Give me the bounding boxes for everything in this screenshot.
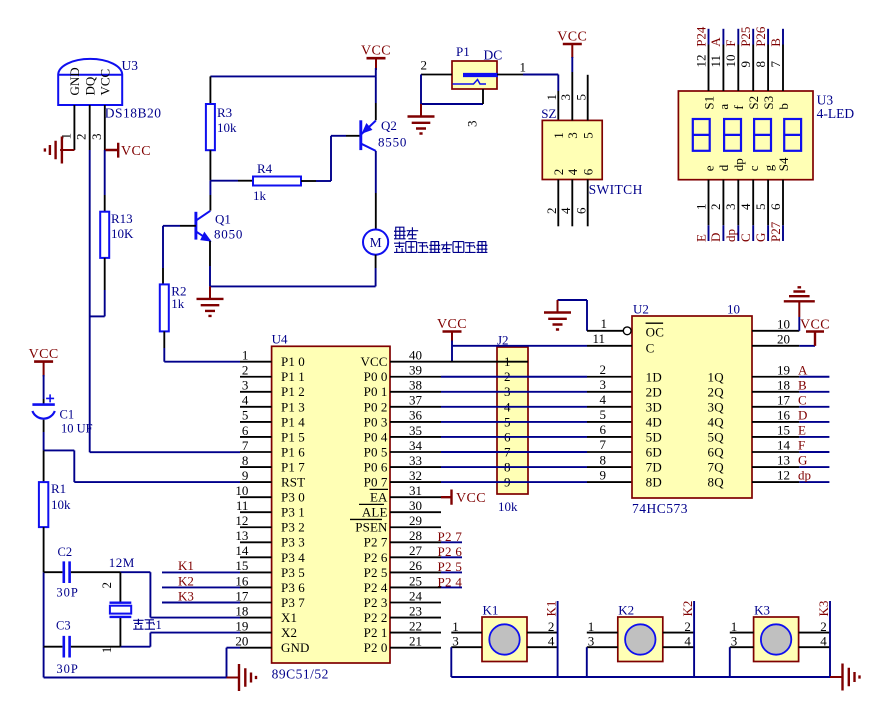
svg-text:g: g — [761, 164, 776, 171]
svg-text:Q1: Q1 — [215, 212, 231, 227]
svg-text:S4: S4 — [776, 157, 791, 171]
svg-text:P1 5: P1 5 — [281, 429, 305, 444]
svg-text:P0 7: P0 7 — [364, 475, 388, 490]
svg-text:8Q: 8Q — [708, 475, 725, 490]
svg-text:1Q: 1Q — [708, 369, 725, 384]
svg-text:S2: S2 — [746, 96, 761, 110]
svg-text:15: 15 — [235, 558, 248, 573]
svg-text:VCC: VCC — [437, 317, 467, 332]
svg-text:a: a — [716, 104, 731, 110]
svg-text:P0 4: P0 4 — [364, 429, 388, 444]
svg-text:29: 29 — [409, 513, 422, 528]
svg-text:74HC573: 74HC573 — [632, 501, 688, 516]
svg-text:34: 34 — [409, 438, 423, 453]
svg-text:VCC: VCC — [361, 44, 391, 59]
svg-text:DC: DC — [484, 48, 503, 63]
svg-text:K1: K1 — [178, 558, 194, 573]
svg-text:B: B — [768, 38, 783, 47]
svg-text:7D: 7D — [646, 460, 663, 475]
svg-text:3: 3 — [452, 634, 459, 649]
svg-text:2: 2 — [99, 582, 114, 589]
svg-text:P2 3: P2 3 — [364, 595, 388, 610]
svg-text:7Q: 7Q — [708, 460, 725, 475]
svg-text:13: 13 — [777, 453, 790, 468]
svg-text:24: 24 — [409, 588, 423, 603]
svg-text:4: 4 — [242, 393, 249, 408]
svg-text:S3: S3 — [761, 96, 776, 110]
svg-text:b: b — [776, 103, 791, 110]
svg-text:5Q: 5Q — [708, 430, 725, 445]
svg-text:DQ: DQ — [82, 76, 97, 95]
svg-text:P2 2: P2 2 — [364, 610, 388, 625]
svg-text:P3 2: P3 2 — [281, 520, 305, 535]
svg-text:SWITCH: SWITCH — [589, 182, 643, 197]
svg-text:7: 7 — [242, 438, 249, 453]
svg-text:15: 15 — [777, 422, 790, 437]
svg-text:1: 1 — [520, 60, 527, 75]
svg-text:P2 6: P2 6 — [364, 550, 388, 565]
svg-text:2: 2 — [544, 208, 559, 215]
svg-text:20: 20 — [235, 633, 248, 648]
svg-text:2: 2 — [421, 58, 428, 73]
svg-text:P3 3: P3 3 — [281, 535, 305, 550]
svg-text:9: 9 — [738, 61, 753, 68]
svg-text:4: 4 — [600, 392, 607, 407]
svg-text:2: 2 — [548, 619, 555, 634]
svg-text:3: 3 — [558, 94, 573, 101]
svg-text:P2 5: P2 5 — [438, 559, 463, 574]
svg-text:2: 2 — [820, 619, 827, 634]
svg-text:P2 7: P2 7 — [364, 535, 388, 550]
svg-text:7: 7 — [768, 61, 783, 68]
svg-text:X1: X1 — [281, 610, 297, 625]
svg-text:2: 2 — [600, 362, 607, 377]
svg-text:PSEN: PSEN — [355, 520, 388, 535]
svg-text:20: 20 — [777, 331, 790, 346]
svg-text:C2: C2 — [58, 545, 73, 559]
svg-text:5: 5 — [753, 204, 768, 211]
svg-text:3: 3 — [89, 134, 104, 141]
svg-text:16: 16 — [777, 407, 791, 422]
svg-text:P2 0: P2 0 — [364, 640, 388, 655]
svg-text:16: 16 — [235, 573, 249, 588]
svg-text:4: 4 — [565, 168, 580, 175]
svg-text:P0 0: P0 0 — [364, 369, 388, 384]
svg-text:2: 2 — [684, 619, 691, 634]
svg-text:2D: 2D — [646, 384, 663, 399]
svg-text:P1 7: P1 7 — [281, 459, 305, 474]
svg-text:R4: R4 — [257, 161, 273, 176]
svg-text:K3: K3 — [816, 601, 831, 617]
svg-text:A: A — [708, 37, 723, 47]
svg-text:3Q: 3Q — [708, 399, 725, 414]
svg-text:10: 10 — [235, 483, 248, 498]
svg-text:4: 4 — [558, 207, 573, 214]
svg-text:K1: K1 — [543, 601, 558, 617]
svg-text:C: C — [738, 233, 753, 242]
svg-text:30P: 30P — [56, 662, 78, 676]
svg-text:K3: K3 — [754, 603, 770, 618]
svg-text:32: 32 — [409, 468, 422, 483]
svg-text:P2 4: P2 4 — [364, 580, 388, 595]
svg-text:3: 3 — [565, 132, 580, 139]
svg-text:40: 40 — [409, 348, 422, 363]
svg-text:P1 2: P1 2 — [281, 384, 305, 399]
svg-text:1: 1 — [551, 132, 566, 139]
svg-text:11: 11 — [236, 498, 249, 513]
svg-text:VCC: VCC — [456, 491, 486, 506]
svg-text:5: 5 — [574, 94, 589, 101]
svg-text:P0 2: P0 2 — [364, 399, 388, 414]
svg-text:P0 1: P0 1 — [364, 384, 388, 399]
svg-text:c: c — [746, 165, 761, 171]
svg-text:2: 2 — [551, 169, 566, 176]
svg-text:P3 4: P3 4 — [281, 550, 305, 565]
svg-text:S1: S1 — [701, 96, 716, 110]
svg-text:GND: GND — [67, 67, 82, 95]
svg-text:e: e — [701, 165, 716, 171]
svg-text:8: 8 — [600, 452, 607, 467]
svg-text:10 UF: 10 UF — [61, 422, 93, 436]
svg-text:14: 14 — [777, 438, 791, 453]
svg-text:19: 19 — [235, 618, 248, 633]
svg-text:P3 6: P3 6 — [281, 580, 305, 595]
svg-text:ALE: ALE — [362, 505, 388, 520]
svg-text:1k: 1k — [171, 296, 185, 311]
svg-text:P1 4: P1 4 — [281, 414, 305, 429]
svg-text:89C51/52: 89C51/52 — [272, 667, 329, 682]
svg-text:18: 18 — [235, 603, 248, 618]
svg-text:G: G — [798, 453, 807, 468]
svg-text:4-LED: 4-LED — [817, 106, 855, 121]
svg-text:8: 8 — [753, 61, 768, 68]
svg-text:31: 31 — [409, 483, 422, 498]
svg-text:8050: 8050 — [214, 227, 243, 242]
svg-text:8: 8 — [242, 453, 249, 468]
svg-text:P2 1: P2 1 — [364, 625, 388, 640]
svg-text:11: 11 — [592, 331, 605, 346]
svg-text:C1: C1 — [60, 408, 75, 422]
svg-text:K3: K3 — [178, 588, 194, 603]
svg-text:U3: U3 — [122, 58, 139, 73]
svg-text:4: 4 — [738, 203, 753, 210]
svg-text:P2 6: P2 6 — [438, 544, 463, 559]
svg-text:17: 17 — [235, 588, 249, 603]
svg-text:7: 7 — [600, 437, 607, 452]
svg-text:35: 35 — [409, 423, 422, 438]
svg-text:F: F — [723, 40, 738, 47]
svg-text:2: 2 — [74, 134, 89, 141]
svg-text:6: 6 — [242, 423, 249, 438]
svg-text:30P: 30P — [56, 586, 78, 600]
svg-text:10k: 10k — [51, 497, 71, 512]
svg-text:37: 37 — [409, 393, 423, 408]
svg-text:P24: P24 — [693, 26, 708, 47]
svg-text:13: 13 — [235, 528, 248, 543]
svg-text:VCC: VCC — [800, 317, 830, 332]
svg-text:U2: U2 — [633, 302, 649, 317]
svg-text:RST: RST — [281, 475, 305, 490]
svg-text:33: 33 — [409, 453, 422, 468]
svg-text:6: 6 — [580, 168, 595, 175]
svg-text:P1: P1 — [456, 44, 470, 59]
svg-text:10k: 10k — [498, 499, 518, 514]
svg-text:2: 2 — [242, 363, 249, 378]
svg-text:K2: K2 — [680, 601, 695, 617]
svg-text:M: M — [370, 235, 382, 250]
svg-text:3D: 3D — [646, 399, 663, 414]
svg-text:F: F — [798, 438, 805, 453]
svg-text:R1: R1 — [51, 481, 66, 496]
svg-text:10: 10 — [777, 316, 790, 331]
svg-text:C: C — [646, 340, 655, 355]
svg-text:U4: U4 — [272, 332, 288, 347]
svg-text:4D: 4D — [646, 415, 663, 430]
svg-text:P1 0: P1 0 — [281, 354, 305, 369]
svg-text:10: 10 — [727, 302, 740, 317]
svg-text:5: 5 — [242, 408, 249, 423]
svg-text:1: 1 — [693, 204, 708, 211]
svg-text:10k: 10k — [217, 120, 237, 135]
svg-text:3: 3 — [731, 634, 738, 649]
svg-text:1: 1 — [544, 94, 559, 101]
svg-text:3: 3 — [723, 204, 738, 211]
svg-text:1: 1 — [99, 647, 114, 654]
svg-text:P26: P26 — [753, 26, 768, 47]
svg-text:4Q: 4Q — [708, 415, 725, 430]
svg-text:4: 4 — [684, 634, 691, 649]
svg-text:E: E — [693, 234, 708, 242]
svg-text:5D: 5D — [646, 430, 663, 445]
svg-text:3: 3 — [465, 121, 480, 128]
svg-text:P1 3: P1 3 — [281, 399, 305, 414]
svg-text:17: 17 — [777, 392, 791, 407]
svg-text:1: 1 — [58, 133, 73, 140]
svg-text:VCC: VCC — [29, 347, 59, 362]
svg-text:D: D — [708, 233, 723, 242]
svg-text:K1: K1 — [483, 603, 499, 618]
svg-text:P1 6: P1 6 — [281, 444, 305, 459]
svg-text:8D: 8D — [646, 475, 663, 490]
svg-text:P2 7: P2 7 — [438, 529, 463, 544]
svg-text:R3: R3 — [217, 105, 232, 120]
svg-text:1: 1 — [601, 316, 608, 331]
svg-text:SZ: SZ — [541, 106, 556, 121]
svg-text:d: d — [716, 164, 731, 171]
svg-text:X2: X2 — [281, 625, 297, 640]
svg-text:3: 3 — [588, 634, 595, 649]
svg-text:VCC: VCC — [360, 354, 387, 369]
svg-text:2: 2 — [708, 204, 723, 211]
svg-text:R13: R13 — [111, 211, 133, 226]
svg-text:6: 6 — [574, 207, 589, 214]
svg-text:C: C — [798, 392, 807, 407]
svg-text:P2 5: P2 5 — [364, 565, 388, 580]
svg-text:11: 11 — [708, 55, 723, 68]
svg-text:30: 30 — [409, 498, 422, 513]
svg-text:P3 0: P3 0 — [281, 490, 305, 505]
svg-text:K2: K2 — [178, 573, 194, 588]
svg-text:DS18B20: DS18B20 — [105, 106, 162, 121]
svg-text:1: 1 — [731, 619, 738, 634]
svg-text:dp: dp — [798, 468, 811, 483]
svg-text:D: D — [798, 407, 807, 422]
svg-text:P2 4: P2 4 — [438, 574, 463, 589]
svg-text:P3 5: P3 5 — [281, 565, 305, 580]
svg-text:14: 14 — [235, 543, 249, 558]
svg-text:P0 6: P0 6 — [364, 459, 388, 474]
svg-text:21: 21 — [409, 633, 422, 648]
svg-text:25: 25 — [409, 573, 422, 588]
svg-text:10K: 10K — [111, 226, 134, 241]
svg-text:39: 39 — [409, 363, 422, 378]
svg-text:EA: EA — [370, 490, 388, 505]
svg-text:P0 3: P0 3 — [364, 414, 388, 429]
svg-text:23: 23 — [409, 603, 422, 618]
svg-text:C3: C3 — [56, 619, 71, 633]
svg-text:27: 27 — [409, 543, 423, 558]
svg-text:A: A — [798, 362, 808, 377]
svg-text:2Q: 2Q — [708, 384, 725, 399]
svg-text:26: 26 — [409, 558, 423, 573]
svg-text:Q2: Q2 — [381, 118, 397, 133]
svg-text:VCC: VCC — [121, 144, 151, 159]
svg-text:6D: 6D — [646, 445, 663, 460]
svg-text:1: 1 — [242, 348, 249, 363]
svg-text:4: 4 — [548, 634, 555, 649]
svg-text:OC: OC — [646, 324, 665, 339]
svg-text:1: 1 — [588, 619, 595, 634]
svg-text:VCC: VCC — [97, 69, 112, 96]
svg-text:K2: K2 — [618, 603, 634, 618]
svg-text:5: 5 — [580, 132, 595, 139]
svg-text:dp: dp — [731, 158, 746, 171]
svg-text:18: 18 — [777, 377, 790, 392]
svg-text:10: 10 — [723, 55, 738, 68]
svg-text:G: G — [753, 233, 768, 242]
svg-text:6: 6 — [600, 422, 607, 437]
svg-text:VCC: VCC — [557, 30, 587, 45]
svg-text:8550: 8550 — [378, 135, 407, 150]
svg-text:P1 1: P1 1 — [281, 369, 305, 384]
svg-text:12: 12 — [235, 513, 248, 528]
svg-text:P3 1: P3 1 — [281, 505, 305, 520]
svg-text:1: 1 — [504, 354, 511, 369]
svg-text:9: 9 — [242, 468, 249, 483]
svg-text:P0 5: P0 5 — [364, 444, 388, 459]
svg-text:dp: dp — [723, 229, 738, 242]
svg-text:6Q: 6Q — [708, 445, 725, 460]
svg-text:5: 5 — [600, 407, 607, 422]
svg-text:3: 3 — [600, 377, 607, 392]
svg-text:36: 36 — [409, 408, 423, 423]
svg-text:GND: GND — [281, 640, 309, 655]
svg-text:1: 1 — [452, 619, 459, 634]
svg-text:6: 6 — [768, 203, 783, 210]
svg-text:P3 7: P3 7 — [281, 595, 305, 610]
svg-text:1k: 1k — [253, 188, 267, 203]
svg-text:38: 38 — [409, 378, 422, 393]
svg-text:4: 4 — [820, 634, 827, 649]
svg-text:P25: P25 — [738, 27, 753, 47]
svg-text:22: 22 — [409, 618, 422, 633]
svg-text:1: 1 — [156, 618, 162, 632]
svg-text:28: 28 — [409, 528, 422, 543]
svg-text:12M: 12M — [109, 555, 135, 570]
svg-text:P27: P27 — [768, 221, 783, 242]
svg-text:12: 12 — [777, 468, 790, 483]
svg-text:3: 3 — [242, 378, 249, 393]
svg-text:1D: 1D — [646, 369, 663, 384]
svg-text:12: 12 — [693, 55, 708, 68]
svg-text:f: f — [731, 105, 746, 110]
svg-text:B: B — [798, 377, 807, 392]
svg-text:9: 9 — [600, 467, 607, 482]
svg-text:19: 19 — [777, 362, 790, 377]
svg-text:E: E — [798, 422, 806, 437]
